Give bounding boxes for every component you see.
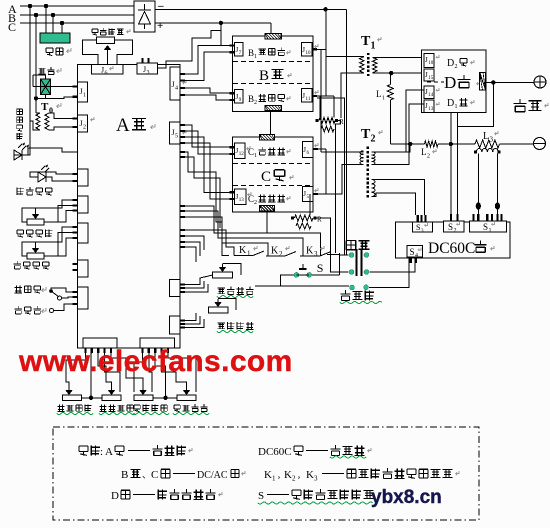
wire A low pins 1 xyxy=(180,206,320,256)
connector J17 xyxy=(424,54,439,68)
svg-text:3: 3 xyxy=(147,70,150,76)
svg-text:5: 5 xyxy=(175,134,178,140)
junction gas-valve xyxy=(34,96,38,100)
svg-text:–: – xyxy=(157,0,164,12)
connector J3 xyxy=(137,63,158,76)
junction on C line x62 xyxy=(60,21,64,25)
gas-delay bracket xyxy=(22,208,36,222)
watermark elecfans xyxy=(18,345,293,378)
connector A-left-7 xyxy=(73,287,89,309)
wire pot link 2 xyxy=(153,397,177,399)
wire weld bracket xyxy=(340,253,349,275)
thrust wiper arrow xyxy=(32,245,40,253)
inductor L2 label xyxy=(421,147,436,160)
svg-text:10: 10 xyxy=(306,51,312,56)
svg-text:D: D xyxy=(111,490,119,502)
junction pots left xyxy=(89,396,93,400)
legend line2b K123 温度传感器开关触点 xyxy=(264,468,459,482)
junction T1 sec xyxy=(389,71,393,75)
svg-text:，: ， xyxy=(297,471,305,480)
board B bottom heatsink tab xyxy=(265,106,281,111)
wire B J11 out xyxy=(317,95,334,97)
wire L3 tap right xyxy=(496,154,498,222)
arc-start 起弧电流 label xyxy=(217,287,254,298)
wire J5p4 to J13b xyxy=(180,143,230,199)
junction on A line x30 xyxy=(28,4,32,8)
wire T1 primary top xyxy=(326,56,364,58)
svg-text::: : xyxy=(100,446,103,458)
inductor L1 label xyxy=(376,89,385,102)
wire T0 top feed xyxy=(36,112,40,114)
argon terminal dots xyxy=(350,285,369,290)
svg-text:S: S xyxy=(483,222,488,232)
base-current wiper arrow xyxy=(214,299,222,307)
connector J2 xyxy=(73,115,95,132)
svg-text:14: 14 xyxy=(428,93,434,98)
wire T0 secondary to J2b xyxy=(49,127,78,130)
voltage-adjust bracket right xyxy=(115,40,133,65)
junction rail right xyxy=(449,142,453,146)
D1 board label xyxy=(447,98,474,110)
svg-text:C: C xyxy=(261,169,271,185)
connector J16c xyxy=(302,142,318,158)
wire Abot2 p3 xyxy=(155,353,165,398)
gas-delay pot body xyxy=(27,219,44,225)
svg-text:S: S xyxy=(317,261,324,275)
svg-text:C: C xyxy=(151,469,158,481)
svg-text:K: K xyxy=(264,469,272,481)
connector A-left-4 xyxy=(73,196,89,213)
wire pulse contact xyxy=(54,304,78,311)
svg-text:www.elecfans.com: www.elecfans.com xyxy=(18,345,293,378)
overheat 过热指示 label xyxy=(17,187,52,195)
transformer T0 secondary xyxy=(45,113,49,130)
wire J11 down feed xyxy=(317,98,344,255)
junction minus rail xyxy=(323,7,327,11)
connector J19 xyxy=(424,86,439,98)
output plus terminal xyxy=(534,76,546,88)
wire mode switch nc xyxy=(61,297,78,298)
gas-valve box xyxy=(41,79,51,95)
transformer T1 label xyxy=(361,34,381,52)
wire gas-valve to J1 xyxy=(33,75,78,86)
svg-text:1: 1 xyxy=(83,93,86,99)
gas-delay 气体延时 label xyxy=(17,229,52,237)
junction on B line x36 xyxy=(34,13,38,17)
wire R1 link a xyxy=(319,96,321,117)
board D dash mark xyxy=(427,81,444,83)
overheat LED symbol xyxy=(38,165,49,183)
wire S right xyxy=(312,274,340,276)
wire gas-delay b xyxy=(44,206,78,223)
pulse-weld 脉冲焊 label xyxy=(14,306,46,314)
rectifier plus label xyxy=(157,20,163,32)
legend line3b S 氩弧焊手把开关 xyxy=(258,489,373,504)
legend line1 说明 A板 控制板 xyxy=(79,445,192,458)
wire gas-valve bottom xyxy=(36,95,78,99)
svg-text:1: 1 xyxy=(254,153,257,159)
wire R2 down feed xyxy=(317,218,340,272)
svg-text:1: 1 xyxy=(489,228,492,234)
resistor R2 xyxy=(291,215,322,229)
connector A-right-low1 xyxy=(170,280,186,297)
connector A-right-low2 xyxy=(170,316,186,334)
board A outline xyxy=(78,65,181,349)
svg-text:L: L xyxy=(421,147,427,157)
wire gas-delay c xyxy=(44,211,78,223)
board DC60C label xyxy=(428,240,494,257)
arc-start pot body xyxy=(213,272,233,278)
board D outline xyxy=(422,50,487,112)
connector J13 xyxy=(230,189,252,205)
peak-time pot 峰值时间 label xyxy=(173,404,209,414)
wire T1 sec bottom xyxy=(373,72,422,74)
switch S pushbutton xyxy=(294,264,312,277)
wire weld right mid to S4 xyxy=(370,259,415,272)
transformer T2 primary winding xyxy=(360,151,364,165)
svg-text:1: 1 xyxy=(382,96,385,102)
transformer T2 secondary lower xyxy=(372,180,376,197)
transformer T2 secondary upper xyxy=(372,152,376,165)
switch K3 xyxy=(300,246,331,259)
transformer T1 core xyxy=(367,53,369,76)
voltage-adjust 电压调节 label xyxy=(92,28,130,35)
inductor L3 label xyxy=(483,131,498,144)
connector J5 xyxy=(170,122,187,144)
wire phase C line xyxy=(20,22,134,24)
wire fan drop 2 xyxy=(52,15,54,33)
svg-text:K: K xyxy=(271,246,279,257)
wire T1 primary bottom xyxy=(341,73,364,118)
connector J6 xyxy=(92,65,124,77)
wire T2 secL top to S3 xyxy=(372,180,425,215)
wire J10 to T2 primary xyxy=(320,49,322,152)
board A label xyxy=(116,115,155,136)
svg-text:R: R xyxy=(317,216,322,224)
junction pots right xyxy=(163,396,167,400)
wire thrust a xyxy=(36,227,78,242)
inductor L2 xyxy=(425,141,439,147)
svg-text:K: K xyxy=(306,469,314,481)
wire pot link 1 xyxy=(82,397,103,399)
legend line2 B板 C板 DC/AC板 xyxy=(121,469,245,481)
wire D to plus output xyxy=(486,81,535,83)
arc-start bracket xyxy=(196,284,201,286)
svg-text:S: S xyxy=(416,223,420,232)
wire D bottom drop 2 xyxy=(457,112,459,221)
transformer T0 label xyxy=(41,101,61,115)
svg-text:K: K xyxy=(306,246,314,257)
svg-text:K: K xyxy=(239,245,247,256)
board B dashed dividers xyxy=(233,62,313,84)
connector S4 xyxy=(407,246,423,263)
svg-text:DC/AC: DC/AC xyxy=(197,470,228,481)
wire J4p2 to J7b xyxy=(180,52,230,80)
svg-text:K: K xyxy=(284,469,292,481)
wire J5p3 to J13a xyxy=(180,137,230,192)
svg-text:13: 13 xyxy=(239,198,245,203)
junction plus output xyxy=(491,80,495,84)
arc-start wires xyxy=(180,275,213,292)
wire C heatsink down xyxy=(266,211,268,233)
wire Abot1 p5 xyxy=(111,353,143,387)
switch K1 xyxy=(234,245,264,258)
pulse contact circle xyxy=(50,309,54,313)
svg-text:B: B xyxy=(121,469,128,481)
inductor L3 coil xyxy=(474,149,501,154)
svg-text:2: 2 xyxy=(455,64,458,70)
wire L1 to rail xyxy=(389,100,391,144)
arc-start-time pot 起弧时间 label xyxy=(57,404,93,414)
fan 风扇 label xyxy=(46,48,71,56)
B2 heatsink 散热片 label xyxy=(248,94,290,106)
voltage-adjust bracket left xyxy=(83,40,98,65)
wire A low pins 6 xyxy=(180,242,200,256)
continuous-weld 连续焊 label xyxy=(14,285,46,293)
wire A mid pins 1 xyxy=(180,152,229,256)
board D right heatsink bar xyxy=(480,73,486,91)
connector J3 pins xyxy=(143,58,149,63)
wire J4p3 to J9a xyxy=(180,88,230,93)
svg-text:T: T xyxy=(41,101,49,113)
svg-text:15: 15 xyxy=(428,76,434,81)
wire K3 to bracket xyxy=(327,254,340,256)
wire LED2 right xyxy=(46,177,78,181)
board B label xyxy=(259,68,291,84)
inductor L3 zigzag xyxy=(475,140,500,148)
wire plus drop at 220 xyxy=(220,23,222,46)
svg-text:2: 2 xyxy=(454,228,457,234)
svg-text:4: 4 xyxy=(175,86,178,92)
rectifier box xyxy=(134,1,155,32)
connector J4 xyxy=(170,67,186,100)
svg-text:1: 1 xyxy=(272,475,276,483)
base-current wires xyxy=(180,313,204,328)
transformer T2 core xyxy=(366,147,369,198)
wire minus drop 2 xyxy=(345,9,347,255)
board C label xyxy=(261,169,293,185)
connector J1 xyxy=(73,82,88,102)
wire plusdrop to J7 line xyxy=(221,45,230,47)
svg-text:10: 10 xyxy=(428,61,434,66)
board C top heatsink tab xyxy=(259,135,274,141)
power-indicator LED symbol xyxy=(14,143,29,161)
wire T2 secL bottom xyxy=(372,193,416,215)
D2 board label xyxy=(447,58,474,70)
gas-delay wiper arrow xyxy=(32,211,40,219)
svg-text:2: 2 xyxy=(427,154,430,160)
wire rail mid xyxy=(438,143,475,145)
wire gas-delay a xyxy=(36,200,78,208)
connector J10 xyxy=(301,43,318,56)
wire T0 secondary to J2a xyxy=(49,113,78,119)
wire rail2 to T0 xyxy=(35,98,37,113)
board D label xyxy=(444,73,480,92)
junction L3 tap right xyxy=(495,202,500,209)
svg-text:R: R xyxy=(339,118,344,126)
wire B J10 out xyxy=(317,48,326,50)
board C bottom heatsink tab xyxy=(259,205,274,211)
svg-text:L: L xyxy=(376,89,382,99)
svg-text:1: 1 xyxy=(455,104,458,110)
wire A low pins 7 xyxy=(180,247,196,262)
connector A-bottom-1 xyxy=(83,338,117,353)
board C outline xyxy=(233,137,314,212)
wire argon left xyxy=(255,285,349,287)
node A (phase input label) xyxy=(8,2,17,16)
base-current 基值电流 label xyxy=(217,322,254,333)
svg-text:、: 、 xyxy=(142,470,151,480)
base-time pot 基值时间 label xyxy=(133,404,169,414)
svg-text:2: 2 xyxy=(292,475,296,483)
connector J11 xyxy=(301,89,318,103)
wire L3 tap left xyxy=(477,154,479,222)
transformer T0 primary xyxy=(36,113,40,130)
base-current pot body xyxy=(208,307,228,313)
wire plus drop to B heatsink xyxy=(270,23,272,34)
wire LED1 right xyxy=(22,148,78,155)
connector J18 xyxy=(424,69,434,81)
connector A-left-5 xyxy=(73,223,89,243)
connector J7 xyxy=(230,43,244,56)
svg-text:S: S xyxy=(258,490,264,502)
node C (phase input label) xyxy=(8,20,16,34)
wire J3 right route xyxy=(158,31,221,69)
wire A low pins 2 xyxy=(180,211,303,256)
wire rail to minus terminal xyxy=(500,143,534,145)
connector S3 xyxy=(412,215,432,234)
wire C J15 to T2 xyxy=(313,165,342,194)
wire thrust b xyxy=(44,233,78,257)
wire argon right to S4 xyxy=(369,259,409,288)
board DC60C outline xyxy=(396,222,511,258)
wire A low pins 5 xyxy=(180,236,204,250)
svg-text:2: 2 xyxy=(371,134,376,145)
legend line3 D板 高频整流板 xyxy=(111,489,222,502)
connector A-left-3 xyxy=(73,169,89,186)
arc-stop-time pot 收弧时间 label xyxy=(99,404,135,414)
wire S left xyxy=(255,275,294,286)
svg-text:DC60C: DC60C xyxy=(258,446,292,458)
svg-text:S: S xyxy=(448,222,453,232)
svg-text:1: 1 xyxy=(371,41,376,52)
svg-text:12: 12 xyxy=(239,152,245,157)
wire Abot2 p1 xyxy=(134,353,143,392)
svg-text:1: 1 xyxy=(247,250,251,258)
wire base top xyxy=(218,299,236,311)
transformer T2 label xyxy=(361,127,382,145)
svg-text:2: 2 xyxy=(254,200,257,206)
wire phase B line xyxy=(20,14,134,16)
wire J4p4 to J9b xyxy=(180,95,230,100)
wire Abot1 p2 xyxy=(90,353,93,398)
connector A-bottom-2 xyxy=(140,338,175,353)
wire Abot2 p2 xyxy=(149,353,152,392)
junction on B line x53 xyxy=(51,13,55,17)
wire L1 top xyxy=(389,73,391,85)
C1 heatsink 散热片 label xyxy=(248,147,290,159)
B1 heatsink 散热片 label xyxy=(248,48,290,60)
C2 heatsink 散热片 label xyxy=(248,194,290,206)
thrust pot body xyxy=(27,253,44,259)
wire arc-start top xyxy=(223,264,242,275)
switch K2 xyxy=(266,246,296,259)
wire mode switch common xyxy=(51,288,78,292)
connector S2 xyxy=(444,214,465,234)
connector J9 xyxy=(230,89,244,103)
arc-stop-time pot 收弧时间 xyxy=(102,387,121,401)
svg-text:11: 11 xyxy=(306,97,311,102)
wire Abot2 p5 xyxy=(168,353,196,392)
wire R1 link b xyxy=(333,96,335,117)
wire thrust c xyxy=(44,238,78,256)
connector J20 xyxy=(424,100,439,113)
switch S label xyxy=(317,261,324,275)
wire left rail 2 xyxy=(35,15,37,98)
rectifier minus label xyxy=(157,0,164,12)
wire D bottom drop 1 xyxy=(450,112,452,221)
power-indicator 电源指示 vertical label xyxy=(17,109,23,139)
junction plus rail xyxy=(219,21,223,25)
svg-text:+: + xyxy=(157,20,163,32)
wire T0 primary bottom xyxy=(30,121,40,130)
legend box xyxy=(53,427,479,520)
legend line1b DC60C板 引弧板 xyxy=(258,445,371,458)
gas-valve 气阀 label xyxy=(38,67,61,74)
board C dashed dividers xyxy=(233,163,313,185)
board B outline xyxy=(233,36,314,112)
transformer T1 primary winding xyxy=(360,57,365,73)
electric-weld 电焊 label xyxy=(346,240,369,249)
output 输出 label xyxy=(514,99,549,112)
voltage-adjust wiper arrow xyxy=(104,45,112,65)
wire R2 link xyxy=(309,194,311,215)
thrust 推力调节 label xyxy=(13,261,49,269)
wire LED1 left xyxy=(14,150,30,155)
wire fan drop 3 xyxy=(61,23,63,33)
wire Abot1 p4 xyxy=(105,353,121,392)
transformer T1 secondary winding xyxy=(373,57,378,72)
junction on A line x46 xyxy=(44,4,48,8)
output minus terminal xyxy=(534,138,546,150)
wire T1 sec top to D xyxy=(373,56,422,58)
svg-text:2: 2 xyxy=(254,100,257,106)
svg-text:0: 0 xyxy=(49,106,53,115)
svg-text:ybx8.cn: ybx8.cn xyxy=(371,487,442,508)
connector J15c xyxy=(302,186,318,201)
svg-text:T: T xyxy=(361,127,371,142)
svg-text:A: A xyxy=(116,115,130,136)
wire Abot1 p3 xyxy=(98,353,111,387)
wire C J16 out xyxy=(313,148,326,150)
base-time pot 基值时间 xyxy=(134,387,153,401)
svg-text:T: T xyxy=(361,34,371,49)
svg-text:C: C xyxy=(8,20,16,34)
arc-start wiper arrow xyxy=(219,264,227,272)
wire T2 primary bottom xyxy=(342,165,364,167)
fan 风扇 box xyxy=(40,33,70,43)
voltage-adjust pot body xyxy=(97,37,115,43)
weld terminal dots mid xyxy=(349,270,369,275)
svg-text:DC60C: DC60C xyxy=(428,240,475,257)
node B (phase input label) xyxy=(8,11,16,25)
wire fan drop 1 xyxy=(45,6,47,33)
svg-text:D: D xyxy=(447,58,454,69)
resistor R1 xyxy=(316,118,345,133)
wire A mid pins 2 xyxy=(180,157,220,228)
board B top heatsink tab xyxy=(265,34,281,39)
wire minus output rail left xyxy=(390,143,424,145)
